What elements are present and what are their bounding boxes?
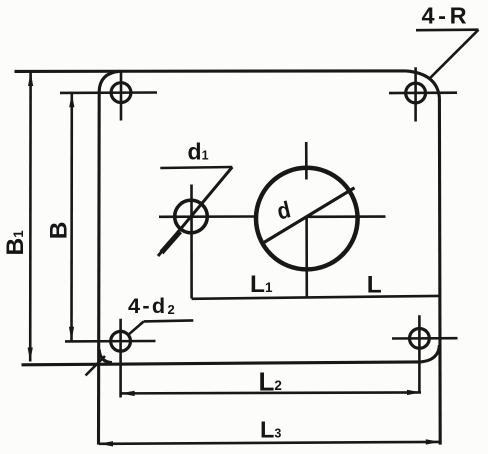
d1 vertical centerline extended to L1 dimension	[190, 185, 193, 299]
hole bottom-left vertical centerline extended to L2 dimension	[119, 319, 122, 398]
hole bottom-left horizontal centerline (B extension)	[65, 340, 156, 343]
plate corner arc top-right	[406, 71, 439, 98]
svg-text:B: B	[45, 222, 72, 240]
svg-text:d1: d1	[188, 138, 209, 164]
plate corner arc bottom-left	[99, 350, 112, 363]
shared horizontal centerline through d1 circle to big circle	[159, 215, 257, 218]
d1 leader slash thick lower segment	[162, 232, 181, 253]
corner slash bottom-left	[86, 356, 106, 376]
svg-text:4-R: 4-R	[422, 3, 471, 29]
hole top-right horizontal centerline	[389, 91, 457, 94]
hole top-right vertical centerline	[414, 67, 417, 121]
plate corner arc top-left	[99, 71, 119, 91]
dimension line B1	[29, 72, 32, 362]
svg-text:4-d2: 4-d2	[128, 293, 177, 318]
hole top-left horizontal centerline (B extension)	[60, 91, 157, 94]
big circle diagonal diameter line	[264, 188, 354, 243]
big circle vertical centerline upper segment	[305, 142, 308, 180]
plate outline top edge with left extension line	[15, 69, 407, 73]
label 4-d2 leader diagonal to hole	[129, 321, 144, 334]
arrow B1 top	[28, 72, 33, 86]
svg-text:L3: L3	[260, 416, 281, 442]
plate outline right edge extended down to L3 dimension	[438, 98, 442, 445]
dimension line L3	[99, 442, 440, 444]
hole top-left vertical centerline	[120, 72, 123, 121]
hole bottom-right	[410, 329, 430, 349]
plate outline left edge extended down to L3 dimension	[97, 92, 101, 445]
svg-text:L2: L2	[259, 366, 282, 396]
hole bottom-right vertical centerline extended to L2 dimension	[418, 315, 421, 393]
svg-text:B1: B1	[2, 230, 29, 256]
dimension line L2	[121, 392, 421, 393]
hole bottom-left	[111, 331, 131, 351]
plate outline bottom edge with left extension line	[22, 362, 422, 365]
arrow L3 left	[99, 441, 113, 446]
arrow B bottom	[69, 327, 74, 341]
d1 label underline	[160, 167, 232, 168]
big circle vertical centerline lower segment to L1 dimension	[305, 217, 308, 299]
svg-text:L: L	[367, 271, 382, 298]
hole top-left	[111, 83, 131, 103]
big circle d	[256, 168, 358, 270]
dimension line L1 and L	[192, 296, 440, 299]
big circle horizontal centerline right segment	[307, 215, 386, 218]
arrow B top	[69, 93, 74, 107]
dimension line B	[70, 93, 73, 341]
hole top-right	[406, 83, 426, 103]
hole bottom-right horizontal centerline	[392, 337, 458, 340]
label 4-d2 leader tail	[144, 320, 194, 321]
small circle d1	[175, 200, 208, 233]
arrow B1 bottom	[28, 348, 33, 362]
arrow L2 left	[121, 391, 135, 396]
label 4-R leader underline	[416, 28, 479, 31]
plate corner arc bottom-right	[421, 345, 439, 362]
arrow L3 right	[426, 439, 440, 444]
d1 leader slash through circle	[158, 167, 232, 256]
label 4-R leader diagonal to corner	[429, 30, 478, 79]
svg-text:L1: L1	[250, 271, 273, 298]
arrow L2 right	[407, 390, 421, 395]
svg-text:d: d	[274, 196, 293, 225]
